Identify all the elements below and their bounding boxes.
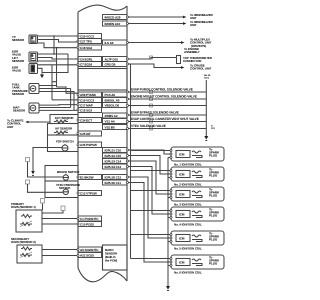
wire FTP pin1 bbox=[39, 85, 57, 87]
svg-text:IGPLS5 C12: IGPLS5 C12 bbox=[105, 175, 122, 179]
wire VCC3 row bbox=[52, 99, 78, 101]
svg-text:EMSOL A5: EMSOL A5 bbox=[105, 98, 120, 102]
wire secondary heater to A9 bbox=[42, 249, 78, 251]
svg-text:C1 PO2SHTC: C1 PO2SHTC bbox=[80, 217, 99, 221]
EGR valve solenoid bbox=[29, 64, 38, 74]
right pin box VS2 B5 bbox=[103, 125, 128, 130]
cascade wire IGPLS5 bbox=[128, 177, 172, 238]
wire VTEC switch left bbox=[28, 184, 64, 192]
primary sensor element bbox=[20, 223, 32, 226]
svg-text:C25 IAT: C25 IAT bbox=[80, 132, 91, 136]
junction bbox=[56, 47, 58, 49]
wire VB solenoid bbox=[128, 105, 207, 107]
svg-text:ASSEMBLY: ASSEMBLY bbox=[184, 50, 200, 54]
svg-text:the PCM): the PCM) bbox=[105, 259, 117, 263]
PCM band wavy top edge bbox=[78, 5, 127, 12]
ignition coil 6 bbox=[171, 255, 224, 269]
left pin box C19 VCC3 bbox=[78, 98, 102, 103]
PSP switch box bbox=[48, 135, 79, 152]
mid stack labels bbox=[55, 116, 80, 190]
branch bus down from CRS row bbox=[130, 64, 132, 259]
right collector vertical bbox=[205, 80, 207, 134]
BARO sensor label bbox=[105, 248, 118, 263]
svg-text:CONTROL UNIT: CONTROL UNIT bbox=[190, 67, 212, 71]
MAP sensor bbox=[29, 103, 39, 113]
PCM band left edge bbox=[77, 12, 79, 268]
SG bus vertical bbox=[56, 48, 58, 87]
right pin box IGPLS5 C12 bbox=[103, 175, 128, 180]
cascade wire IGPLS2 bbox=[128, 156, 172, 175]
svg-text:HO2S (SENSOR 2): HO2S (SENSOR 2) bbox=[11, 240, 36, 244]
inline connector label bbox=[26, 180, 30, 184]
right pin box PCS A6 bbox=[103, 92, 128, 97]
svg-text:ICM: ICM bbox=[179, 173, 185, 177]
svg-text:ACG: ACG bbox=[204, 77, 209, 80]
brake switch box bbox=[45, 166, 78, 182]
left pin box C17 MAP bbox=[78, 103, 102, 108]
wire PSP to ground bbox=[33, 148, 62, 170]
wire primary heater to C1 PO2SHTC bbox=[42, 218, 78, 220]
left pin box labels bbox=[80, 34, 99, 257]
right pin box IGPLS6 C11 bbox=[103, 180, 128, 185]
svg-text:ICM: ICM bbox=[179, 261, 185, 265]
right pin box IGPLS2 C15 bbox=[103, 153, 128, 158]
svg-text:PCS A6: PCS A6 bbox=[105, 93, 116, 97]
svg-text:HO2S (SENSOR 1): HO2S (SENSOR 1) bbox=[11, 205, 36, 209]
wire CRS to cruise control unit bbox=[128, 64, 182, 68]
svg-text:EVAP PURGE CONTROL SOLENOID VA: EVAP PURGE CONTROL SOLENOID VALVE bbox=[131, 88, 193, 92]
ignition coil 5 bbox=[171, 231, 224, 245]
wire EGR valve feed bbox=[38, 64, 79, 66]
svg-text:No. 2 IGNITION COIL: No. 2 IGNITION COIL bbox=[174, 183, 202, 187]
wire EGR lift SG bbox=[38, 60, 57, 62]
svg-text:UNIT: UNIT bbox=[190, 23, 197, 27]
IAT thermistor bbox=[54, 131, 68, 134]
left pin box C10 PO2S bbox=[78, 222, 102, 227]
fuse label above collector bbox=[204, 74, 216, 130]
right pin box CRS D9 bbox=[103, 62, 128, 67]
right pin box ALTF D10 bbox=[103, 57, 128, 62]
wire IMOEN to immobilizer bbox=[128, 23, 184, 25]
wire EGR valve return bbox=[38, 68, 43, 72]
right pin box labels bbox=[105, 15, 122, 185]
svg-text:VBSOL D6: VBSOL D6 bbox=[105, 103, 120, 107]
right pin box EMSOL A5 bbox=[103, 98, 128, 103]
svg-text:ICM: ICM bbox=[179, 153, 185, 157]
svg-text:VS2 B5: VS2 B5 bbox=[105, 125, 115, 129]
svg-text:No. 6 IGNITION COIL: No. 6 IGNITION COIL bbox=[174, 271, 202, 275]
ground bus bbox=[167, 158, 169, 285]
svg-text:SENSOR: SENSOR bbox=[12, 92, 25, 96]
right pin box IMOCD A25 bbox=[103, 15, 128, 20]
secondary HO2S box bbox=[17, 245, 42, 263]
left pin box E1 BKSW bbox=[78, 175, 102, 180]
svg-text:C10 PO2S: C10 PO2S bbox=[80, 222, 94, 226]
cascade wire IGPLS1 bbox=[128, 150, 172, 154]
left pin box C29 VCC2 bbox=[78, 34, 102, 39]
svg-text:C18 SG2: C18 SG2 bbox=[80, 46, 92, 50]
wire FTP pin2 bbox=[39, 88, 71, 90]
left pin box C7 EG24 bbox=[78, 62, 102, 67]
right pin box IGPLS4 C13 bbox=[103, 164, 128, 169]
solenoid wire labels bbox=[131, 88, 199, 129]
right top labels bbox=[183, 13, 214, 71]
primary mid vertical with connector bbox=[42, 211, 63, 214]
wire MAP SG to SG3 bbox=[39, 109, 78, 111]
svg-text:C17 MAP: C17 MAP bbox=[80, 103, 93, 107]
VCC bus vertical bbox=[53, 36, 55, 54]
left pin box C34 ECT bbox=[78, 118, 102, 123]
svg-text:IGPLS1 C16: IGPLS1 C16 bbox=[105, 148, 122, 152]
right pin box IGPLS1 C16 bbox=[103, 148, 128, 153]
wire TP VCC2 bbox=[38, 35, 79, 37]
cascade wire IGPLS4 bbox=[128, 167, 172, 215]
ignition coil 1 bbox=[171, 147, 224, 161]
BARO sensor box (built into PCM) bbox=[103, 245, 128, 270]
wire primary signal to C10 PO2S bbox=[42, 223, 78, 225]
VTEC pressure switch box bbox=[45, 181, 78, 198]
svg-text:PLUG: PLUG bbox=[209, 262, 218, 266]
right pin box VBSOL D6 bbox=[103, 103, 128, 108]
svg-text:No. 5 IGNITION COIL: No. 5 IGNITION COIL bbox=[174, 247, 202, 251]
left pin box A58 PTANK bbox=[78, 92, 102, 97]
left pin box C13 VTPSW bbox=[78, 191, 102, 196]
svg-text:E1 BKSW: E1 BKSW bbox=[80, 175, 94, 179]
cascade wire IGPLS3 bbox=[128, 161, 172, 194]
left edge pins bbox=[77, 35, 79, 37]
wire FTP pin3 bbox=[39, 92, 75, 111]
brake switch contact bbox=[63, 175, 68, 180]
svg-text:PLUG: PLUG bbox=[209, 154, 218, 158]
wire MAP signal bbox=[39, 104, 78, 107]
svg-text:PLUG: PLUG bbox=[209, 214, 218, 218]
svg-text:VTEC SOLENOID VALVE: VTEC SOLENOID VALVE bbox=[131, 124, 166, 128]
stair wire to PTANK bbox=[52, 82, 78, 94]
svg-text:C9 EGRL: C9 EGRL bbox=[80, 57, 93, 61]
inline connector label bbox=[26, 158, 30, 162]
wire EVAP purge control solenoid valve bbox=[128, 91, 207, 93]
svg-text:IAT SENSOR: IAT SENSOR bbox=[55, 127, 73, 131]
svg-text:ECT SENSOR: ECT SENSOR bbox=[55, 116, 74, 120]
cascade wire IGPLS6 bbox=[128, 183, 172, 263]
svg-text:ENGINE MOUNT CONTROL SOLENOID: ENGINE MOUNT CONTROL SOLENOID VALVE bbox=[131, 95, 197, 99]
svg-text:IGPLS6 C11: IGPLS6 C11 bbox=[105, 181, 122, 185]
left pin box C18 SG2 bbox=[78, 45, 102, 50]
coil texts bbox=[174, 148, 220, 275]
svg-text:PLUG: PLUG bbox=[209, 174, 218, 178]
left margin labels bbox=[7, 35, 36, 244]
PSP switch contact bbox=[62, 145, 68, 151]
wire IMOCD to immobilizer bbox=[128, 16, 184, 18]
svg-text:C34 ECT: C34 ECT bbox=[80, 118, 92, 122]
TP sensor connector bbox=[29, 35, 38, 44]
svg-text:IGPLS2 C15: IGPLS2 C15 bbox=[105, 154, 122, 158]
coil feed bus stubs bbox=[131, 150, 172, 152]
svg-text:EVAP BYPASS SOLENOID VALVE: EVAP BYPASS SOLENOID VALVE bbox=[131, 111, 179, 115]
wire to climate control unit bbox=[29, 121, 51, 123]
wire VTEC solenoid valve bbox=[128, 128, 207, 130]
svg-text:A58 PTANK: A58 PTANK bbox=[80, 93, 97, 97]
svg-text:A9 SO2SHTC: A9 SO2SHTC bbox=[80, 248, 99, 252]
left pin box A35 PSPSW bbox=[78, 142, 102, 148]
VTEC pressure switch contact bbox=[63, 189, 68, 194]
svg-text:BRAKE SWITCH: BRAKE SWITCH bbox=[57, 170, 79, 174]
IAT sensor box bbox=[48, 124, 79, 136]
left pin box C15 SG3 bbox=[78, 108, 102, 113]
svg-text:EVAP CONTROL CANISTER VENT SHU: EVAP CONTROL CANISTER VENT SHUT VALVE bbox=[131, 117, 199, 121]
svg-text:VS1 A4: VS1 A4 bbox=[105, 119, 115, 123]
primary heater resistor bbox=[21, 215, 32, 218]
svg-text:A22 SO2S: A22 SO2S bbox=[80, 253, 94, 257]
svg-text:C13 VTPSW: C13 VTPSW bbox=[80, 191, 97, 195]
right pin box ILS A6 bbox=[103, 40, 128, 45]
left pin box C1 PO2SHTC bbox=[78, 216, 102, 221]
wire EGR lift VCC bbox=[38, 53, 69, 55]
wire EVAP control canister vent shut valve bbox=[128, 121, 207, 123]
wire engine mount control solenoid valve bbox=[128, 98, 207, 100]
right pin box 2WBS A2 bbox=[103, 113, 128, 118]
ECT thermistor bbox=[54, 120, 68, 123]
primary HO2S box bbox=[16, 210, 42, 232]
vertical link FTP/MAP VCC bbox=[70, 89, 72, 108]
secondary sensor element bbox=[20, 254, 32, 257]
junction bbox=[53, 35, 55, 37]
left pin box C27 TPS bbox=[78, 39, 102, 44]
right pin box IMOEN A10 bbox=[103, 21, 128, 26]
left pin box A9 SO2SHTC bbox=[78, 247, 102, 252]
ignition coil 3 bbox=[171, 187, 224, 201]
right pin box VS1 A4 bbox=[103, 119, 128, 124]
EGR valve lift sensor connector bbox=[29, 52, 38, 62]
left pin box C25 IAT bbox=[78, 131, 102, 136]
svg-text:IMOEN A10: IMOEN A10 bbox=[105, 22, 121, 26]
ground G2 bbox=[205, 134, 207, 136]
svg-text:PSP SWITCH: PSP SWITCH bbox=[56, 140, 74, 144]
left pin box A22 SO2S bbox=[78, 253, 102, 258]
engine top thermometer connector bbox=[177, 56, 181, 64]
svg-text:C19 VCC3: C19 VCC3 bbox=[80, 98, 94, 102]
PCM internal block (driver section) bbox=[78, 69, 127, 91]
svg-text:SENSOR: SENSOR bbox=[13, 109, 26, 113]
svg-text:C7 EG24: C7 EG24 bbox=[80, 62, 92, 66]
svg-text:CRS D9: CRS D9 bbox=[105, 62, 116, 66]
svg-text:No. 1 IGNITION COIL: No. 1 IGNITION COIL bbox=[174, 163, 202, 167]
coil boxes bbox=[171, 147, 224, 269]
svg-text:SWITCH: SWITCH bbox=[59, 186, 70, 190]
secondary heater resistor bbox=[21, 247, 32, 250]
left pin box C9 EGRL bbox=[78, 57, 102, 62]
ignition coil 4 bbox=[171, 207, 224, 221]
right pin box IGPLS3 C14 bbox=[103, 159, 128, 164]
ECT sensor box bbox=[50, 115, 78, 124]
svg-text:IGPLS3 C14: IGPLS3 C14 bbox=[105, 159, 122, 163]
ignition coil 2 bbox=[171, 167, 224, 181]
junction bbox=[53, 53, 55, 55]
wire TP TPS bbox=[38, 40, 79, 43]
fuel tank pressure sensor bbox=[29, 84, 39, 94]
PCM band wavy bottom edge bbox=[78, 268, 127, 282]
svg-text:SENSOR: SENSOR bbox=[12, 38, 25, 42]
wire brake switch left bbox=[28, 162, 64, 177]
svg-text:IGPLS4 C13: IGPLS4 C13 bbox=[105, 165, 122, 169]
wire ILS to multiplex control unit bbox=[128, 42, 182, 44]
svg-text:PLUG: PLUG bbox=[209, 194, 218, 198]
svg-text:ICM: ICM bbox=[179, 237, 185, 241]
wire TP SG2 bbox=[38, 43, 79, 48]
right edge pins bbox=[127, 16, 129, 18]
svg-text:ALTF D10: ALTF D10 bbox=[105, 57, 119, 61]
svg-text:ICM: ICM bbox=[179, 213, 185, 217]
svg-text:101: 101 bbox=[211, 127, 216, 130]
wire secondary signal to A22 bbox=[42, 255, 78, 257]
coil pins bbox=[170, 150, 172, 152]
wire EVAP bypass solenoid valve bbox=[128, 114, 207, 116]
wire channel link bbox=[42, 54, 68, 73]
wire MAP VCC bbox=[39, 107, 71, 109]
inline connector bbox=[150, 56, 153, 59]
ground G3 at coils bbox=[167, 284, 169, 286]
svg-text:IMOCD A25: IMOCD A25 bbox=[105, 15, 121, 19]
primary top vertical with connector bbox=[42, 204, 44, 211]
svg-text:No. 4 IGNITION COIL: No. 4 IGNITION COIL bbox=[174, 223, 202, 227]
svg-text:C29 VCC2: C29 VCC2 bbox=[80, 34, 94, 38]
svg-text:PLUG: PLUG bbox=[209, 238, 218, 242]
svg-text:No. 3 IGNITION COIL: No. 3 IGNITION COIL bbox=[174, 203, 202, 207]
svg-text:ILS A6: ILS A6 bbox=[105, 41, 114, 45]
svg-text:A35 PSPSW: A35 PSPSW bbox=[80, 143, 97, 147]
bus vertical from EGR row bbox=[51, 65, 53, 100]
svg-text:C15 SG3: C15 SG3 bbox=[80, 108, 92, 112]
svg-text:2WBS A2: 2WBS A2 bbox=[105, 114, 118, 118]
svg-text:SENSOR: SENSOR bbox=[12, 59, 25, 63]
svg-text:C27 TPS: C27 TPS bbox=[80, 39, 92, 43]
wire to thermometer connector bbox=[128, 58, 177, 60]
svg-text:UNIT: UNIT bbox=[7, 125, 14, 129]
PCM band right edge bbox=[126, 6, 128, 281]
ground G101 bbox=[32, 169, 34, 171]
svg-text:CONNECTOR: CONNECTOR bbox=[183, 59, 202, 63]
continuation arrow down bbox=[41, 73, 43, 75]
wire EGR lift EGRL bbox=[38, 58, 79, 60]
svg-text:ICM: ICM bbox=[179, 193, 185, 197]
svg-text:VALVE: VALVE bbox=[12, 69, 21, 73]
